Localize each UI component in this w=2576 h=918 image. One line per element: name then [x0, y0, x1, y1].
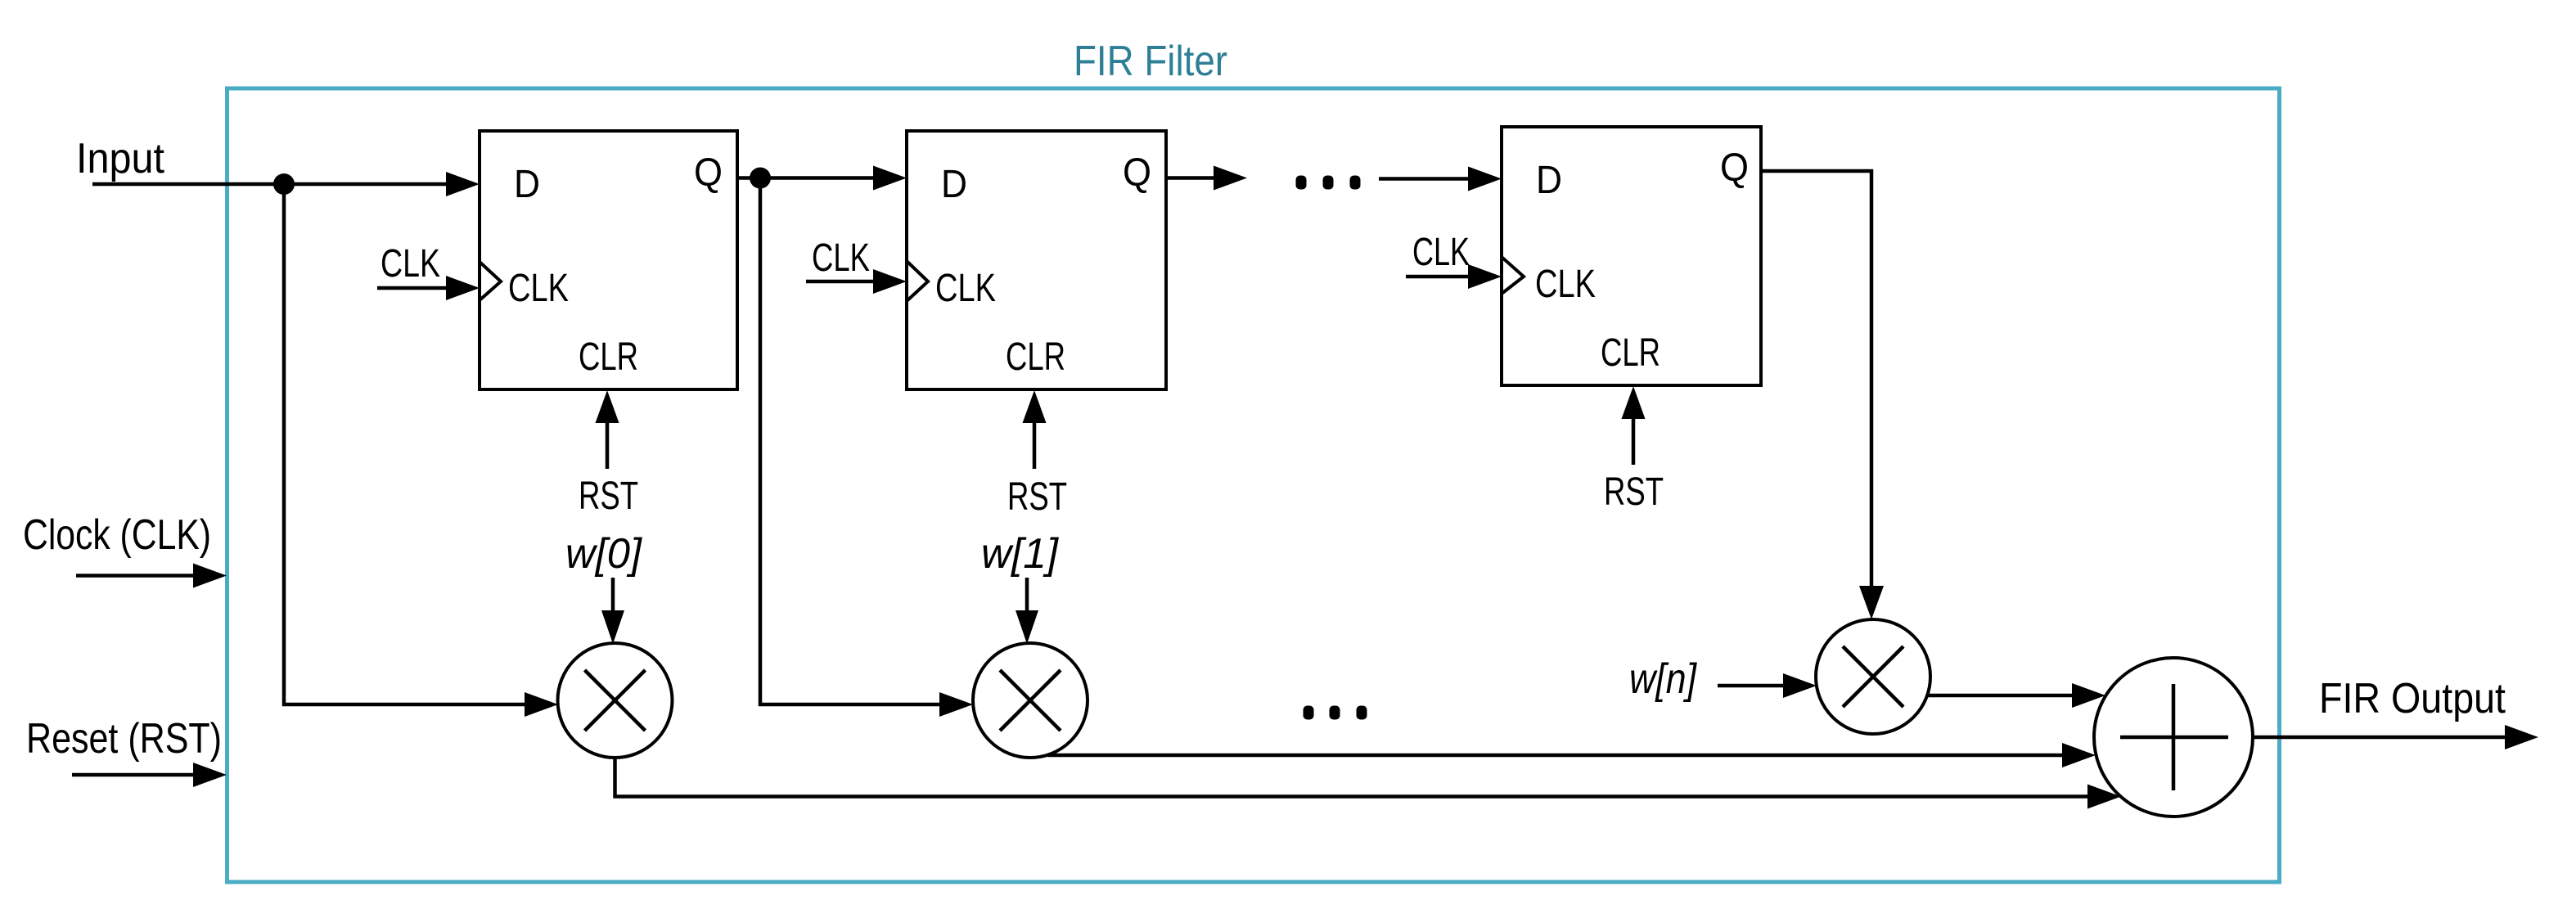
wire: Input to U1 D [92, 172, 480, 196]
flip-flop U2 [907, 131, 1166, 389]
svg-text:Q: Q [1720, 146, 1749, 190]
wire: junction A down and right to multiplier M1 [284, 184, 558, 717]
svg-text:RST: RST [1007, 475, 1067, 519]
wire: U2 Q toward ellipsis [1166, 166, 1247, 191]
multiplier M3 [1816, 619, 1930, 734]
svg-text:CLK: CLK [508, 267, 569, 310]
wire: CLK arrow into U3 chevron [1406, 264, 1502, 289]
FIR Filter boundary box [227, 88, 2280, 882]
node A: input junction [273, 173, 295, 195]
node B: U1 Q junction [750, 168, 771, 189]
svg-text:CLK: CLK [812, 236, 870, 280]
wire: w[n] arrow into M3 [1718, 673, 1817, 698]
wire: M2 output right to adder [1047, 743, 2096, 767]
svg-text:Q: Q [1123, 151, 1151, 195]
svg-text:D: D [514, 163, 540, 206]
svg-text:D: D [941, 163, 967, 206]
svg-text:CLK: CLK [1412, 231, 1470, 274]
wire: RST arrow into U1 CLR [596, 390, 619, 469]
svg-text:w[1]: w[1] [981, 530, 1060, 578]
wire: Reset arrow into FIR box [72, 763, 227, 787]
svg-text:w[n]: w[n] [1629, 655, 1697, 703]
wire: U3 Q right and down to multiplier M3 [1761, 171, 1884, 619]
svg-text:CLK: CLK [381, 242, 440, 286]
wire: adder output (FIR Output) [2253, 725, 2538, 749]
wire: M3 output right to adder [1927, 683, 2105, 708]
svg-text:CLK: CLK [1535, 263, 1596, 306]
svg-text:RST: RST [579, 475, 638, 518]
wire: w[1] arrow into M2 [1016, 578, 1038, 644]
svg-text:CLR: CLR [1601, 331, 1660, 375]
wire: Clock arrow into FIR box [76, 564, 227, 588]
svg-text:D: D [1536, 159, 1562, 202]
wire: CLK arrow into U1 chevron [377, 276, 480, 300]
svg-text:w[0]: w[0] [565, 530, 643, 578]
svg-text:Clock (CLK): Clock (CLK) [23, 511, 211, 559]
svg-text:FIR Filter: FIR Filter [1074, 38, 1227, 85]
adder S1 [2094, 658, 2253, 817]
wire: w[0] arrow into M1 [601, 578, 624, 644]
wire: junction B down and right to multiplier M2 [760, 178, 973, 718]
svg-text:Q: Q [694, 151, 723, 195]
svg-text:Input: Input [76, 135, 165, 182]
wire: RST arrow into U3 CLR [1622, 386, 1646, 465]
multiplier M2 [973, 643, 1088, 758]
wire: RST arrow into U2 CLR [1023, 390, 1047, 469]
wire: ellipsis to U3 D [1379, 167, 1502, 191]
svg-text:CLR: CLR [1006, 335, 1065, 379]
svg-text:Reset (RST): Reset (RST) [26, 715, 222, 763]
wire: CLK arrow into U2 chevron [806, 269, 907, 294]
svg-text:RST: RST [1604, 470, 1664, 514]
wire: M1 output down and right to adder [615, 758, 2122, 809]
wire: U1 Q to U2 D [737, 166, 907, 191]
multiplier M1 [558, 643, 673, 758]
flip-flop U1 [480, 131, 737, 389]
ellipsis between U2 and U3 [1296, 176, 1361, 190]
svg-text:CLK: CLK [935, 267, 996, 310]
ellipsis in product row [1304, 706, 1367, 720]
svg-text:CLR: CLR [579, 335, 638, 379]
flip-flop U3 [1502, 127, 1761, 385]
svg-text:FIR Output: FIR Output [2319, 675, 2506, 722]
